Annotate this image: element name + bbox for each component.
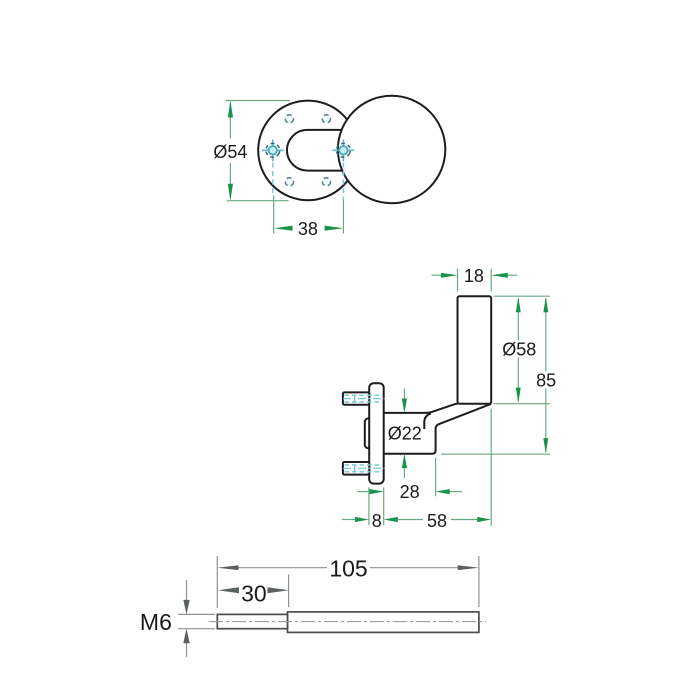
center mark left (fixing position) (262, 139, 284, 196)
dimension Ø58 (502, 297, 536, 403)
bolt threaded end M6 (217, 614, 287, 628)
svg-text:105: 105 (329, 556, 367, 582)
dimension 28 (358, 482, 463, 502)
dimension 38 (274, 196, 344, 239)
bolt centerline (209, 621, 486, 623)
lower fixing screw (343, 462, 369, 475)
rosette side profile (369, 383, 384, 483)
svg-text:M6: M6 (140, 609, 172, 635)
arm top edge (384, 404, 458, 413)
arm bottom edge with step (384, 404, 492, 454)
dimension Ø22 (388, 389, 422, 479)
bolt thick shank (288, 612, 479, 633)
dimension 85 (536, 297, 556, 453)
extension line arm step (435, 458, 437, 497)
dimension 58 (384, 511, 492, 531)
U-slot in rosette (287, 130, 343, 171)
dimension Ø54 (213, 101, 290, 201)
screw hole bottom-right (322, 178, 330, 186)
svg-text:85: 85 (536, 371, 556, 391)
dimension 30 (218, 575, 289, 608)
lower screw thread lines (343, 465, 385, 472)
extension line arm bottom (441, 453, 550, 455)
dimension M6 (140, 580, 215, 657)
screw hole top-left (285, 115, 293, 123)
extension line knob bottom (494, 403, 551, 405)
svg-text:28: 28 (400, 482, 420, 502)
dimension 105 (217, 556, 479, 608)
knob ball circle (Ø58) (338, 96, 445, 203)
center mark right (fixing position) (332, 139, 354, 200)
extension line knob right (490, 409, 492, 526)
svg-text:Ø22: Ø22 (388, 424, 422, 444)
svg-text:58: 58 (427, 511, 447, 531)
screw hole bottom-left (285, 178, 293, 186)
neck tangent hook (424, 413, 431, 429)
svg-text:30: 30 (241, 580, 267, 606)
dimension 8 (342, 511, 382, 531)
svg-text:Ø58: Ø58 (502, 340, 536, 360)
svg-text:38: 38 (298, 219, 318, 239)
extension line knob top (494, 295, 551, 297)
extension line rosette back (368, 487, 370, 525)
rosette circle (Ø54 rose plate) (258, 101, 358, 201)
svg-text:18: 18 (464, 266, 484, 286)
spindle hub behind rosette (365, 418, 377, 448)
extension line rosette front (383, 487, 385, 525)
dimension 18 (432, 266, 518, 292)
knob side profile rectangle (458, 296, 492, 404)
screw hole top-right (322, 115, 330, 123)
upper screw thread lines (343, 395, 385, 402)
upper fixing screw (343, 392, 369, 404)
svg-text:Ø54: Ø54 (213, 142, 247, 162)
svg-text:8: 8 (372, 511, 382, 531)
